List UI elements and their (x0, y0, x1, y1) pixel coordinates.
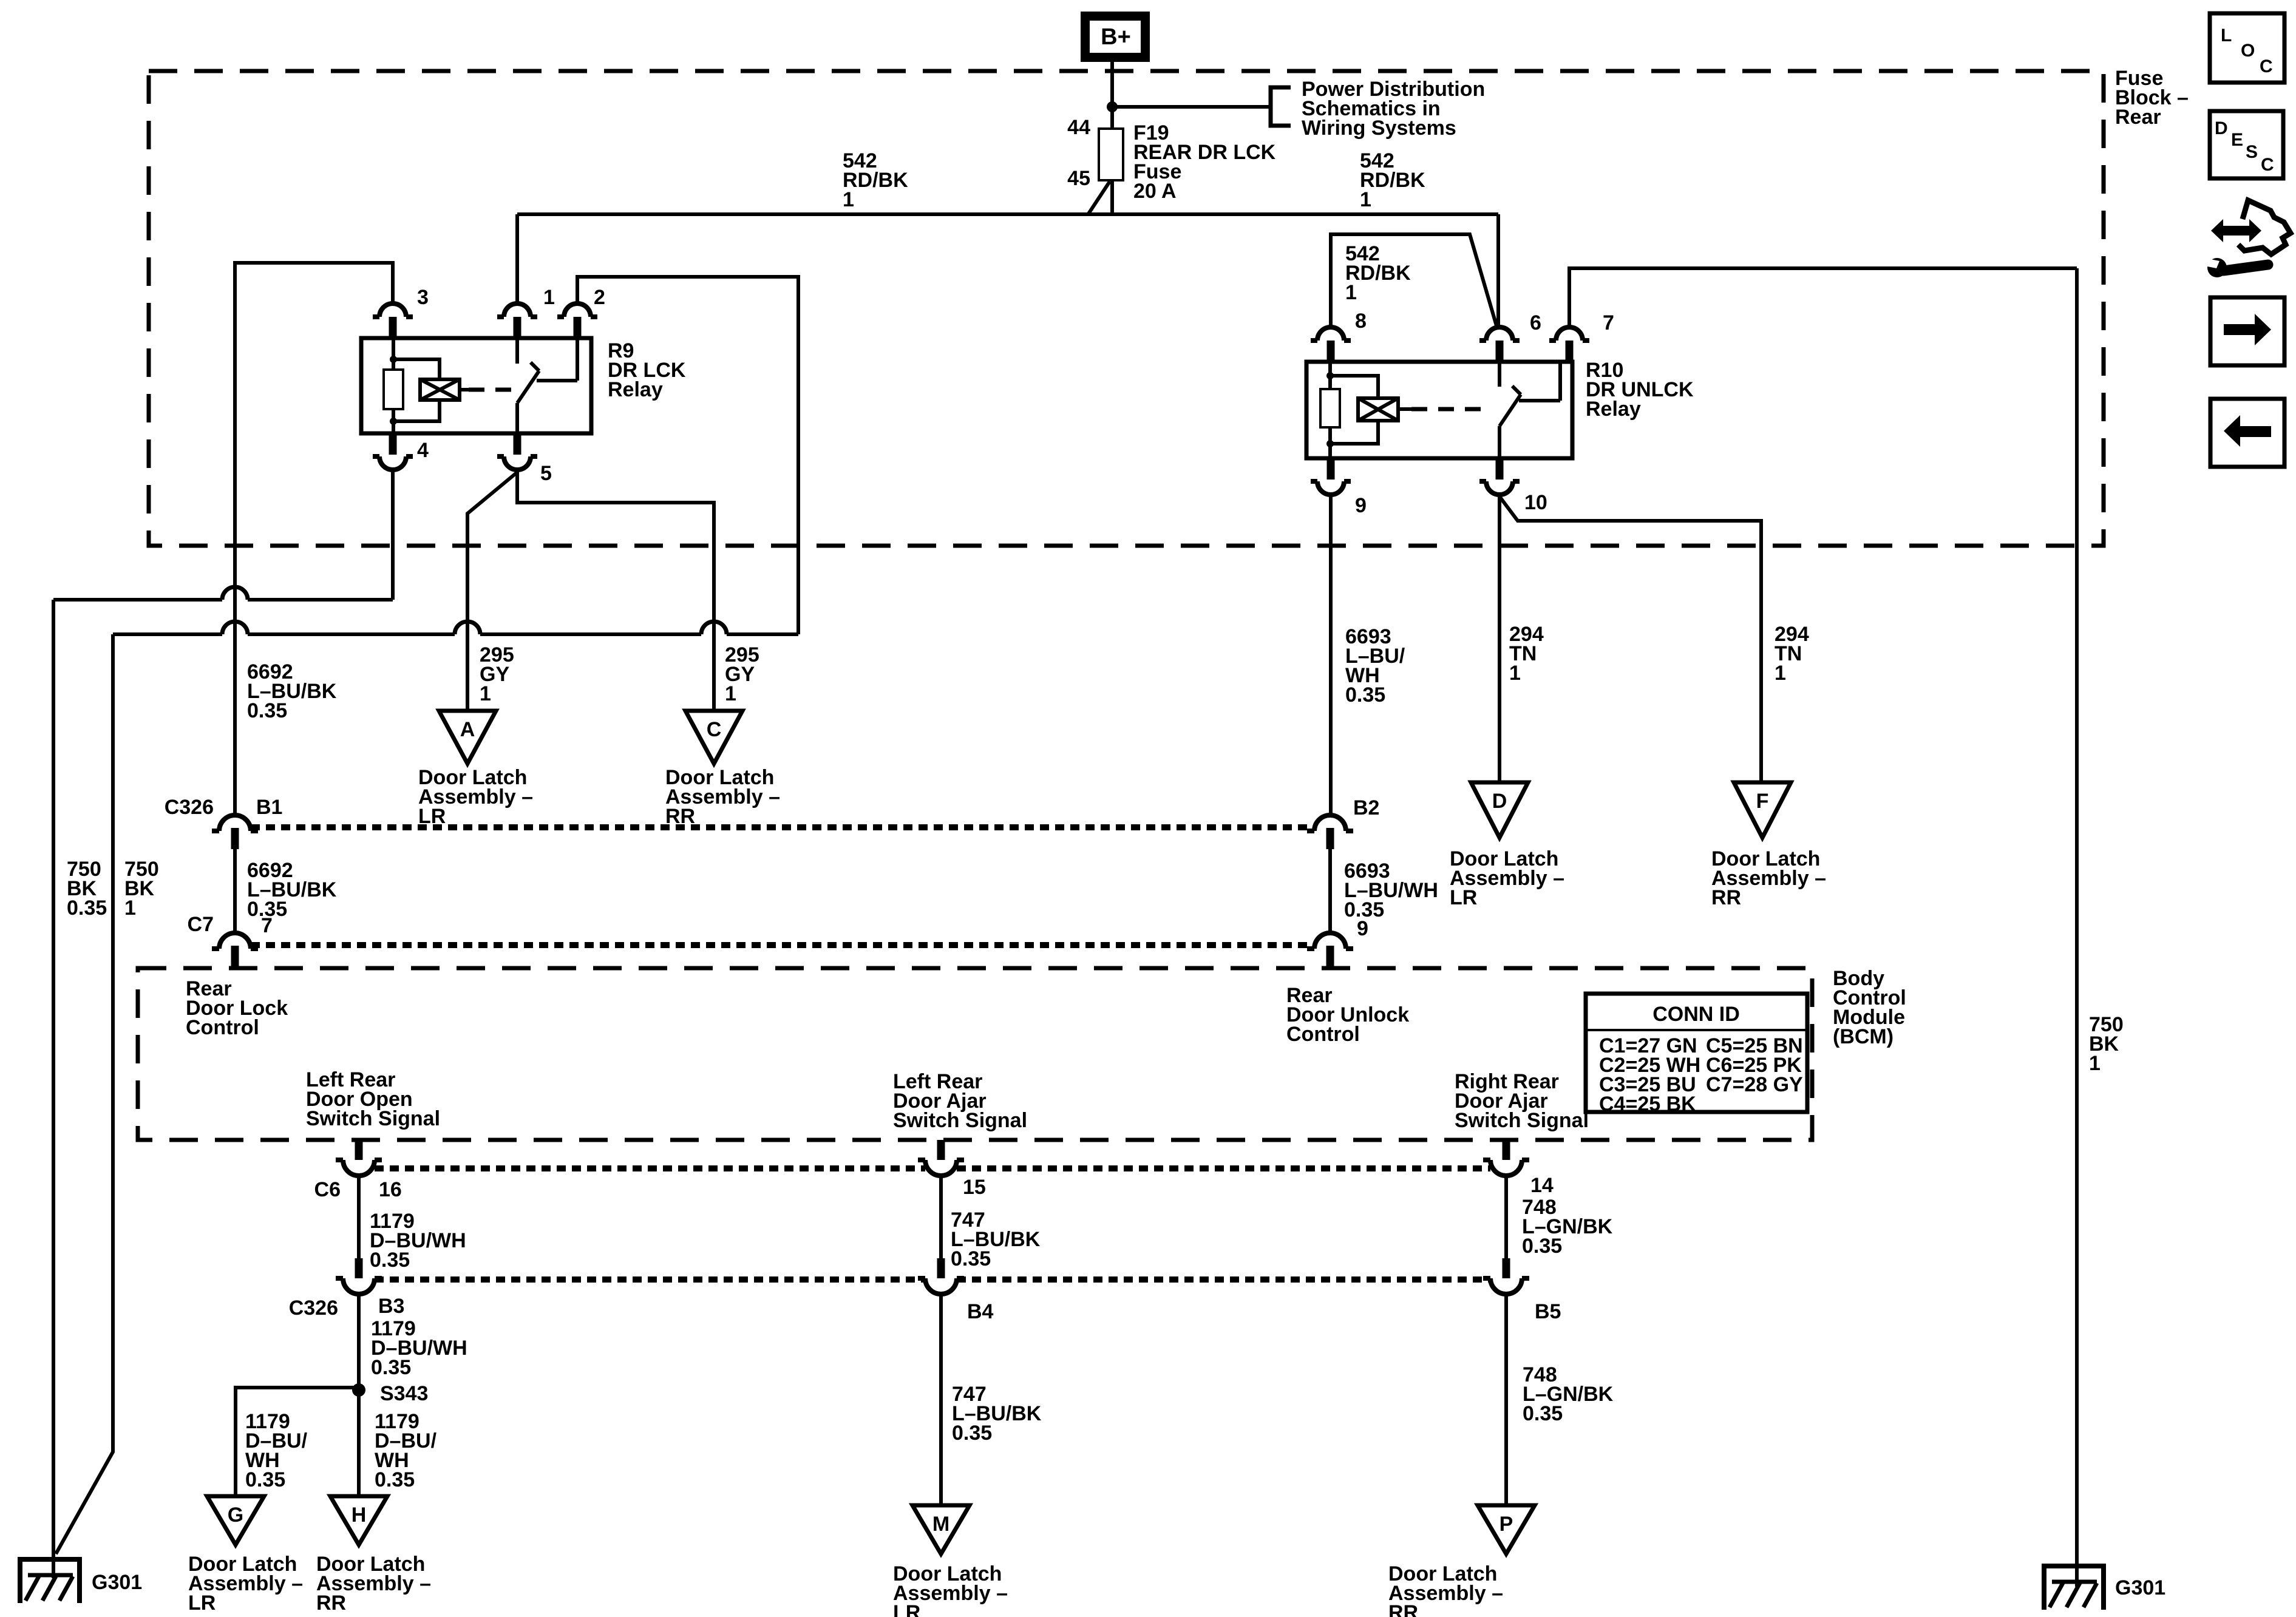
svg-text:C7=28 GY: C7=28 GY (1706, 1073, 1803, 1096)
svg-text:9: 9 (1355, 494, 1367, 517)
connector C326 B4 (937, 1258, 945, 1278)
svg-text:1: 1 (843, 188, 854, 211)
svg-text:C6: C6 (314, 1178, 341, 1201)
svg-text:6: 6 (1530, 311, 1541, 334)
triangle F door latch RR (1734, 782, 1791, 838)
svg-text:Wiring Systems: Wiring Systems (1302, 117, 1456, 140)
wire 1179 D-BU/WH C6 to B3 (357, 1176, 361, 1258)
R10 pin 7 (1556, 327, 1583, 341)
svg-text:C: C (707, 718, 722, 741)
triangle C door latch RR (685, 711, 742, 764)
svg-text:1: 1 (725, 682, 736, 705)
svg-text:7: 7 (261, 914, 273, 937)
svg-text:0.35: 0.35 (375, 1468, 415, 1491)
R10 pin 10 (1496, 458, 1504, 480)
svg-text:0.35: 0.35 (371, 1356, 411, 1379)
wire B+ to fuse F19 (1110, 59, 1114, 129)
svg-text:LR: LR (188, 1592, 216, 1615)
svg-text:7: 7 (1603, 311, 1614, 334)
wire 748 B5 to P latch (1504, 1294, 1508, 1505)
R9 coil symbol (420, 379, 460, 400)
R9 actuation dashed link (469, 388, 521, 392)
R10 pin 8 (1317, 327, 1344, 341)
wire 542 to R9 pin 1 (515, 214, 519, 303)
relay R9 DR LCK box (361, 338, 591, 433)
ground G301 left (18, 1559, 82, 1603)
R9 switch blade (517, 371, 539, 403)
icon LOC box (2210, 13, 2284, 83)
R10 coil resistor (1328, 362, 1332, 389)
R10 switch blade (1500, 395, 1521, 426)
svg-text:CONN ID: CONN ID (1652, 1003, 1740, 1026)
R9 pin 2 (564, 303, 591, 317)
icon DESC box (2210, 111, 2283, 178)
R9 coil resistor (392, 338, 395, 370)
svg-text:RR: RR (1711, 886, 1741, 909)
wire S343 to G latch (236, 1388, 359, 1496)
connector C326 B2 (1314, 815, 1346, 831)
connector C326 B3 (355, 1258, 363, 1278)
wire fuse output (1110, 180, 1114, 214)
svg-text:G: G (228, 1503, 243, 1527)
wire 750 BK 1 right vertical (2075, 268, 2079, 1587)
fuse F19 REAR DR LCK 20A (1099, 129, 1123, 180)
svg-text:10: 10 (1524, 491, 1547, 514)
triangle P door latch RR (1478, 1505, 1535, 1554)
wire R10 pin 10 to D latch (1498, 495, 1501, 782)
connector pin 15 (937, 1140, 945, 1160)
svg-text:C: C (2260, 56, 2273, 76)
R10 coil winding branch (1330, 376, 1378, 444)
svg-text:0.35: 0.35 (247, 699, 287, 722)
R10 coil branch junction bottom (1326, 440, 1334, 447)
wire 750 BK 0.35 vertical (52, 600, 55, 1578)
wire R9 pin 5 to C latch (517, 470, 714, 711)
svg-text:L: L (2221, 25, 2232, 46)
svg-text:0.35: 0.35 (245, 1468, 285, 1491)
harness dotted line C326 lower row (375, 1276, 925, 1283)
R9 switch fixed contact (515, 338, 519, 364)
svg-text:14: 14 (1530, 1174, 1554, 1197)
svg-text:1: 1 (1345, 281, 1357, 304)
svg-text:O: O (2241, 41, 2255, 61)
svg-text:1: 1 (480, 682, 491, 705)
svg-text:C: C (2261, 155, 2274, 175)
svg-text:Control: Control (1286, 1023, 1360, 1046)
triangle M door latch LR (912, 1505, 970, 1554)
svg-text:Switch Signal: Switch Signal (893, 1109, 1027, 1132)
wire R9 pin 4 to ground net (53, 470, 393, 600)
svg-text:M: M (932, 1513, 949, 1536)
R10 coil branch junction top (1326, 372, 1334, 379)
svg-text:20 A: 20 A (1133, 180, 1177, 203)
svg-text:S: S (2246, 142, 2258, 162)
svg-text:D: D (2215, 118, 2228, 138)
wire 542 branch to R10 pin 8 (1331, 234, 1497, 328)
body control module BCM dashed box (138, 968, 1812, 1140)
svg-text:Switch Signal: Switch Signal (306, 1107, 440, 1130)
wire 6693 between B2 and BCM pin 9 (1328, 849, 1332, 933)
harness dotted line C326 B1-B2 (251, 824, 1314, 830)
svg-text:1: 1 (2089, 1052, 2101, 1075)
wire R9 pin 3 / 6692 L-BU/BK to C326 B1 (235, 263, 393, 815)
R9 pin 4 (389, 433, 397, 455)
R10 switch output to pin 7 (1519, 362, 1560, 401)
svg-text:16: 16 (379, 1178, 402, 1201)
wire 747 L-BU/BK 15 to B4 (939, 1176, 943, 1258)
svg-text:B3: B3 (378, 1295, 404, 1318)
svg-text:Relay: Relay (1586, 398, 1641, 421)
connector BCM pin 9 (1314, 933, 1346, 949)
svg-text:H: H (352, 1503, 367, 1527)
wire R10 pin 9 / 6693 L-BU/WH to B2 (1329, 495, 1333, 815)
icon arrow right box (2210, 297, 2284, 365)
svg-text:1: 1 (1509, 662, 1521, 685)
ground G301 right (2042, 1566, 2106, 1610)
icon arrow left box (2210, 399, 2284, 467)
CONN ID table (1586, 994, 1807, 1112)
svg-text:3: 3 (417, 286, 429, 309)
B+ power symbol (1081, 12, 1150, 62)
svg-text:B5: B5 (1535, 1300, 1561, 1323)
wire ground horizontal with hops (113, 632, 798, 636)
svg-text:C4=25 BK: C4=25 BK (1599, 1093, 1696, 1116)
wire 6692 between B1 and C7 (233, 849, 237, 933)
svg-text:LR: LR (1450, 886, 1477, 909)
svg-text:C326: C326 (289, 1297, 338, 1320)
svg-text:B4: B4 (967, 1300, 994, 1323)
svg-text:0.35: 0.35 (952, 1422, 992, 1445)
R9 pin 1 (504, 303, 531, 317)
wire 1179 B3 to S343 (357, 1294, 361, 1390)
svg-text:C326: C326 (165, 796, 214, 819)
svg-text:E: E (2231, 130, 2243, 150)
svg-text:P: P (1500, 1513, 1513, 1536)
splice S343 (352, 1383, 365, 1397)
svg-text:D: D (1492, 790, 1507, 813)
harness dotted line C7 to pin 9 (251, 942, 1314, 948)
wire 748 L-GN/BK 14 to B5 (1504, 1176, 1508, 1258)
svg-text:2: 2 (594, 286, 605, 309)
connector C326 B5 (1503, 1258, 1510, 1278)
wire to power distribution note (1112, 105, 1271, 109)
svg-text:C7: C7 (188, 913, 214, 936)
R9 coil winding branch (393, 359, 440, 421)
svg-text:0.35: 0.35 (1523, 1402, 1563, 1425)
R9 coil branch junction top (390, 356, 397, 363)
wire 750 BK 1 left vertical (56, 634, 113, 1554)
svg-text:1: 1 (543, 286, 555, 309)
triangle H door latch RR (330, 1496, 387, 1545)
svg-text:1: 1 (124, 897, 136, 920)
svg-text:0.35: 0.35 (1345, 683, 1385, 707)
svg-text:B2: B2 (1353, 796, 1379, 819)
wire S343 to H latch (357, 1390, 361, 1496)
relay R10 DR UNLCK box (1306, 362, 1572, 458)
R9 pin 5 (514, 433, 521, 455)
svg-text:A: A (460, 718, 475, 741)
svg-text:G301: G301 (2115, 1576, 2165, 1599)
R10 pin 6 (1486, 327, 1513, 341)
svg-text:5: 5 (540, 462, 552, 485)
wire R9 pin 5 to A latch (467, 472, 517, 711)
R10 coil symbol (1358, 398, 1398, 421)
R10 switch fixed contact (1498, 362, 1501, 387)
R10 actuation dashed link (1411, 407, 1490, 412)
R10 pin 9 (1327, 458, 1335, 480)
wire R10 pin 7 to right ground run (1569, 268, 2077, 327)
triangle G door latch LR (207, 1496, 264, 1545)
wire 542 to R10 pin 6 (1496, 214, 1500, 328)
svg-text:1: 1 (1775, 662, 1786, 685)
svg-text:B+: B+ (1101, 24, 1131, 50)
svg-text:45: 45 (1067, 167, 1090, 190)
svg-text:0.35: 0.35 (67, 897, 107, 920)
svg-text:Control: Control (186, 1016, 259, 1039)
svg-text:Switch Signal: Switch Signal (1455, 1109, 1589, 1132)
svg-text:8: 8 (1355, 310, 1367, 333)
junction node (1107, 101, 1118, 112)
wire R10 pin 10 to F latch (1500, 497, 1761, 782)
icon vehicle with arrows and wrench (2211, 219, 2261, 242)
fuse block rear dashed box (149, 71, 2104, 546)
svg-text:LR: LR (893, 1601, 920, 1617)
svg-text:15: 15 (963, 1176, 986, 1199)
svg-text:(BCM): (BCM) (1833, 1025, 1894, 1048)
R9 switch output to pin 2 (537, 338, 577, 381)
svg-text:4: 4 (417, 439, 429, 462)
svg-text:B1: B1 (256, 796, 282, 819)
wire R9 pin 2 to ground net (577, 277, 798, 634)
triangle D door latch LR (1471, 782, 1528, 838)
svg-text:0.35: 0.35 (1522, 1235, 1562, 1258)
harness dotted line C6 row (375, 1165, 925, 1171)
svg-text:Rear: Rear (2115, 106, 2161, 129)
svg-text:S343: S343 (380, 1382, 428, 1405)
svg-text:F: F (1756, 790, 1769, 813)
svg-text:9: 9 (1357, 917, 1368, 940)
triangle A door latch LR (439, 711, 496, 764)
svg-text:G301: G301 (92, 1571, 142, 1594)
svg-text:0.35: 0.35 (951, 1247, 991, 1270)
connector C7 pin 7 BCM (219, 933, 251, 949)
wire 542 RD/BK horizontal (517, 212, 1498, 216)
R9 pin 3 (379, 303, 406, 317)
wire 747 B4 to M latch (939, 1294, 943, 1505)
svg-text:0.35: 0.35 (370, 1249, 410, 1272)
connector pin 14 (1503, 1140, 1510, 1160)
connector C326 B1 (219, 815, 251, 831)
svg-text:RR: RR (1388, 1601, 1418, 1617)
connector C6 pin 16 (355, 1140, 363, 1160)
svg-text:Relay: Relay (608, 378, 663, 401)
svg-text:RR: RR (316, 1592, 346, 1615)
svg-text:44: 44 (1067, 116, 1090, 139)
svg-text:1: 1 (1360, 188, 1371, 211)
R9 coil branch junction bottom (390, 418, 397, 425)
